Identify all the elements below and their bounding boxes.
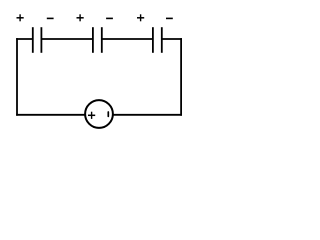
wire: right vertical side [180,38,182,116]
polarity label - (right plate of C2) [106,17,113,19]
wire: bottom-left run from corner to battery [16,114,90,116]
capacitor C1 (leftmost, plates) [33,27,42,53]
battery / voltage source (circle symbol) [85,100,113,128]
capacitor C3 (rightmost, plates) [153,27,162,53]
polarity label + (left plate of C3) [137,14,144,21]
wire: bottom-right run from battery to corner [108,114,182,116]
capacitor C2 (middle, plates) [93,27,102,53]
polarity label + (left plate of C1) [17,14,24,21]
battery positive terminal label + [88,112,95,119]
polarity label - (right plate of C1) [47,17,54,19]
wire: top-right lead from C3 to right corner [162,38,182,40]
wire: between C1 and C2 [41,38,93,40]
wire: between C2 and C3 [102,38,153,40]
polarity label + (left plate of C2) [77,14,84,21]
wire: top-left lead from left corner to C1 [16,38,33,40]
battery negative terminal mark (vertical bar) [107,112,109,116]
polarity label - (right plate of C3) [166,17,173,19]
wire: left vertical side [16,38,18,116]
